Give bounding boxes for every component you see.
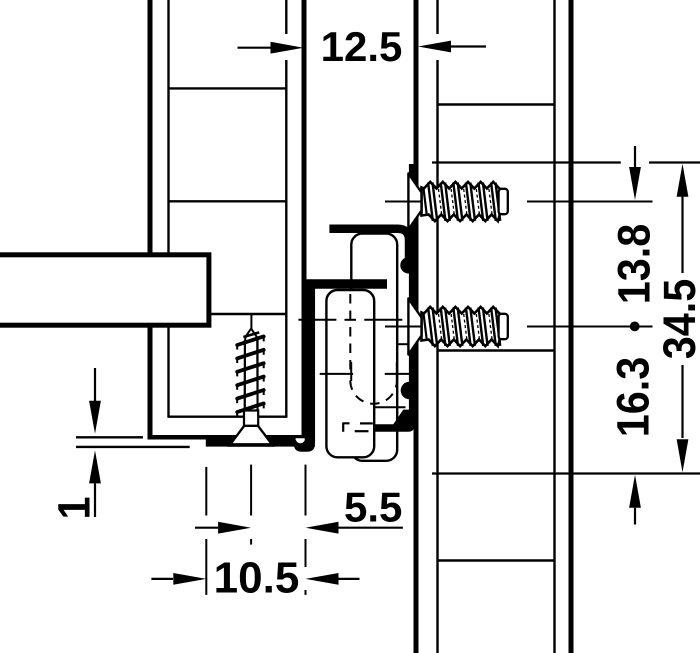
svg-text:34.5: 34.5 [655, 279, 700, 360]
svg-text:1: 1 [50, 496, 100, 519]
svg-text:16.3: 16.3 [609, 357, 659, 438]
svg-text:12.5: 12.5 [321, 23, 403, 70]
svg-text:13.8: 13.8 [610, 224, 660, 305]
svg-text:10.5: 10.5 [214, 554, 300, 603]
svg-text:5.5: 5.5 [344, 484, 402, 531]
